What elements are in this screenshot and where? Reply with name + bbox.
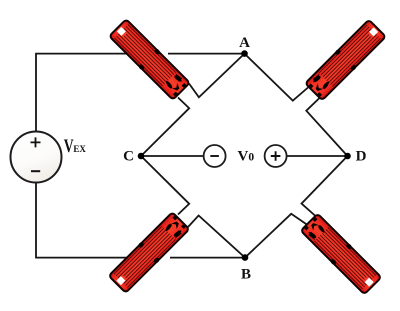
wire node B to gauge R4 lead xyxy=(245,214,309,258)
node D xyxy=(344,153,351,160)
svg-text:A: A xyxy=(239,35,250,51)
wire node D to gauge R4 lead xyxy=(302,156,348,216)
strain gauge R1 (top-left) xyxy=(108,18,190,100)
node A xyxy=(241,50,248,57)
voltmeter plus terminal xyxy=(265,145,287,167)
wire V_EX- to node B (bottom rail) xyxy=(36,183,245,258)
svg-text:D: D xyxy=(356,149,367,165)
wire V_EX+ to node A (top rail) xyxy=(36,54,245,132)
strain gauge R2 (top-right) xyxy=(304,19,386,101)
svg-text:B: B xyxy=(241,267,251,283)
wire voltmeter plus terminal to node D xyxy=(287,155,348,157)
svg-text:V0: V0 xyxy=(238,148,255,164)
voltage source V_EX xyxy=(11,132,62,183)
wire node A to gauge R1 lead xyxy=(189,54,245,98)
svg-text:C: C xyxy=(123,149,134,165)
wire node C to gauge R1 lead xyxy=(141,98,189,157)
wire node D to gauge R2 lead xyxy=(306,98,347,157)
svg-text:V: V xyxy=(64,135,74,157)
wire node B to gauge R3 lead xyxy=(188,216,245,258)
wire node C to voltmeter minus terminal xyxy=(141,155,204,157)
strain gauge R4 (bottom-right) xyxy=(300,213,382,295)
node C xyxy=(138,153,145,160)
wire node A to gauge R2 lead xyxy=(245,54,309,101)
source minus sign xyxy=(31,170,40,172)
wire node C to gauge R3 lead xyxy=(141,156,189,215)
strain gauge R3 (bottom-left) xyxy=(108,211,190,293)
voltmeter minus terminal xyxy=(204,145,226,167)
source plus sign xyxy=(31,137,41,147)
svg-text:EX: EX xyxy=(73,144,86,154)
node B xyxy=(242,254,249,261)
